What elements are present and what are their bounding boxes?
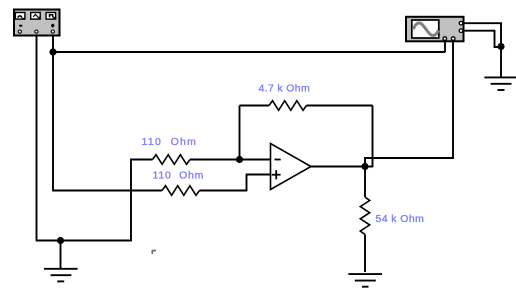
label "4.7 k Ohm" [259,83,311,95]
junction dot output node [361,163,368,170]
wire R2 right lead run [200,190,247,192]
oscilloscope [406,17,464,42]
stray gray corner mark [152,251,156,254]
wire bottom ground bus [36,240,132,242]
resistor 110 Ohm (top, inverting input) [153,155,191,165]
wire oscilloscope right terminal 2 [463,31,502,47]
wire step up to plus input [246,175,248,192]
wire R1 to op-amp minus input [190,159,271,161]
op-amp minus pin mark [275,159,281,161]
resistor 4.7 k Ohm (feedback) [269,101,307,111]
svg-text:4.7 k Ohm: 4.7 k Ohm [259,83,311,95]
junction dot ground bus [57,237,64,244]
wire FG common terminal down [36,33,38,241]
ground G1 stem [60,241,62,270]
wire feedback drop to output [372,106,374,168]
wire output to oscilloscope channel B [365,42,453,167]
ground G2 stem [500,47,502,78]
function generator [14,10,60,36]
wire long top run to oscilloscope channel A [53,51,445,53]
ground G2 [484,77,516,90]
wire FG plus terminal down [52,33,54,191]
svg-text:54 k Ohm: 54 k Ohm [376,213,425,225]
wire feedback riser [239,106,241,161]
op-amp triangle [271,144,312,190]
wire op-amp output [311,166,373,168]
resistor 110 Ohm (bottom, non-inverting input) [162,186,200,196]
wire oscilloscope channel A stub [444,42,446,53]
wire feedback top right [307,105,373,107]
label "110 Ohm" (bottom resistor) [153,170,205,182]
junction dot inverting node [236,156,243,163]
ground G1 [44,269,78,282]
wire riser to R1 left lead [130,159,152,161]
junction dot oscilloscope ground node [497,43,504,50]
wire plus-input bottom run [52,190,162,192]
svg-text:110 Ohm: 110 Ohm [142,136,198,148]
wire oscilloscope right terminal 1 [463,23,502,46]
wire R4 to ground [364,235,366,273]
wire left riser to R1 [130,160,132,242]
wire feedback top left [240,105,270,107]
op-amp plus pin mark [272,170,281,179]
svg-text:110 Ohm: 110 Ohm [153,170,205,182]
label "110 Ohm" (top resistor) [142,136,198,148]
resistor 54 k Ohm (load) [360,197,369,235]
wire into op-amp plus input [246,174,271,176]
ground G3 [348,274,382,287]
junction dot FG plus node [49,48,56,55]
wire output down to R4 [364,167,366,198]
label "54 k Ohm" [376,213,425,225]
